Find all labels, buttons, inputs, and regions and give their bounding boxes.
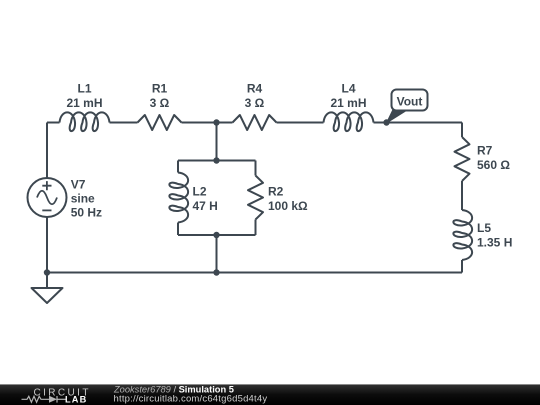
wire parallel combo top — [178, 160, 256, 162]
svg-text:21 mH: 21 mH — [66, 96, 102, 110]
wire R2 bottom stub — [255, 220, 257, 236]
node dot Vout tap — [383, 119, 389, 125]
svg-text:1.35 H: 1.35 H — [477, 235, 512, 249]
svg-text:V7: V7 — [71, 178, 86, 192]
svg-text:R4: R4 — [247, 82, 263, 96]
label L1 — [66, 82, 102, 111]
node dot R1-R4 junction — [213, 119, 219, 125]
svg-text:L2: L2 — [193, 185, 207, 199]
label R7 — [477, 144, 510, 172]
logo schematic wire resistor diode — [22, 396, 67, 403]
resistor R2 — [248, 176, 263, 220]
label L5 — [477, 221, 512, 249]
wire L5 to bottom rail — [461, 260, 463, 273]
svg-text:L4: L4 — [341, 82, 355, 96]
svg-text:L1: L1 — [77, 82, 91, 96]
wire source top to top rail — [46, 123, 48, 179]
ground stub wire — [46, 273, 48, 289]
label L2 — [193, 185, 218, 213]
svg-text:3 Ω: 3 Ω — [150, 96, 170, 110]
wire parallel combo bottom — [178, 234, 256, 236]
resistor R4 — [233, 115, 277, 130]
node dot ground junction — [44, 269, 50, 275]
svg-text:LAB: LAB — [65, 394, 87, 404]
resistor R7 — [455, 137, 470, 181]
label L4 — [330, 82, 366, 111]
svg-text:Vout: Vout — [397, 95, 423, 109]
svg-text:21 mH: 21 mH — [330, 96, 366, 110]
wire R7 to L5 — [461, 181, 463, 210]
node dot combo bottom — [213, 232, 219, 238]
inductor L1 — [60, 112, 110, 131]
wire L4 to right corner — [374, 122, 463, 124]
svg-text:R2: R2 — [268, 185, 284, 199]
svg-text:3 Ω: 3 Ω — [245, 96, 265, 110]
node dot combo top — [213, 157, 219, 163]
inductor L5 — [453, 210, 472, 260]
wire L2 top stub — [177, 161, 179, 173]
svg-text:R1: R1 — [152, 82, 168, 96]
plus sign of V7 — [42, 181, 51, 190]
wire R1 to R4 — [182, 122, 233, 124]
svg-text:L5: L5 — [477, 221, 491, 235]
label R4 — [245, 82, 265, 111]
wire top rail left stub — [47, 122, 60, 124]
wire L2 bottom stub — [177, 223, 179, 236]
svg-text:560 Ω: 560 Ω — [477, 158, 510, 172]
resistor R1 — [138, 115, 182, 130]
inductor L2 — [169, 173, 188, 223]
svg-text:100 kΩ: 100 kΩ — [268, 199, 308, 213]
wire right side down to R7 — [461, 123, 463, 138]
wire middle branch to bottom rail — [216, 235, 218, 273]
label R2 — [268, 185, 308, 213]
svg-text:sine: sine — [71, 192, 95, 206]
wire source bottom to bottom rail — [46, 217, 48, 273]
wire bottom rail — [47, 272, 462, 274]
wire middle branch from top node — [216, 123, 218, 161]
wire R2 top stub — [255, 161, 257, 176]
sine wave inside V7 — [37, 191, 57, 205]
svg-text:R7: R7 — [477, 144, 493, 158]
voltage source V7 circle — [28, 178, 67, 217]
logo diode triangle — [49, 396, 57, 403]
wire L1 to R1 — [110, 122, 138, 124]
svg-text:50 Hz: 50 Hz — [71, 206, 102, 220]
node dot middle bottom rail — [213, 269, 219, 275]
Vout flag tail — [387, 110, 409, 124]
wire R4 to L4 — [277, 122, 324, 124]
svg-text:47 H: 47 H — [193, 199, 218, 213]
svg-text:http://circuitlab.com/c64tg6d5: http://circuitlab.com/c64tg6d5d4t4y — [114, 394, 268, 405]
label R1 — [150, 82, 170, 111]
Vout flag box — [392, 90, 428, 111]
minus sign of V7 — [42, 209, 51, 211]
ground symbol — [32, 288, 63, 303]
inductor L4 — [324, 112, 374, 131]
label V7 — [71, 178, 102, 220]
